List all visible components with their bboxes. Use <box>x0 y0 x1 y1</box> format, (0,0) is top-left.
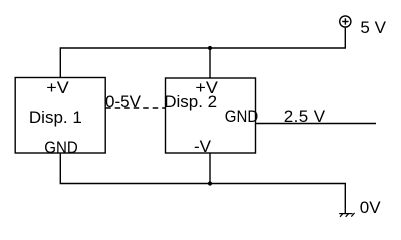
wire Disp.2 -V to rail <box>209 153 211 184</box>
svg-text:0-5V: 0-5V <box>105 92 142 111</box>
svg-text:+V: +V <box>46 78 69 97</box>
svg-text:2.5 V: 2.5 V <box>284 107 326 126</box>
display block Disp. 2 <box>166 78 256 153</box>
wire Disp.2 +V to rail <box>209 48 211 78</box>
wire dashed 0-5V signal <box>105 107 165 109</box>
svg-text:Disp. 2: Disp. 2 <box>164 92 217 111</box>
display block Disp. 1 <box>15 78 105 154</box>
svg-text:5 V: 5 V <box>360 18 386 37</box>
svg-text:GND: GND <box>44 138 77 157</box>
terminal 5V circle <box>340 16 351 27</box>
wire GND 2.5V output <box>255 123 376 125</box>
ground symbol <box>339 213 354 217</box>
wire 0V rail bottom <box>60 153 345 214</box>
svg-text:GND: GND <box>225 107 258 126</box>
wire +5V rail top <box>60 28 345 78</box>
terminal 5V plus sign <box>342 21 348 23</box>
svg-text:-V: -V <box>194 137 212 156</box>
svg-text:0V: 0V <box>360 198 381 217</box>
junction node top <box>208 46 212 50</box>
junction node bottom <box>208 181 212 185</box>
svg-text:Disp. 1: Disp. 1 <box>29 108 82 127</box>
